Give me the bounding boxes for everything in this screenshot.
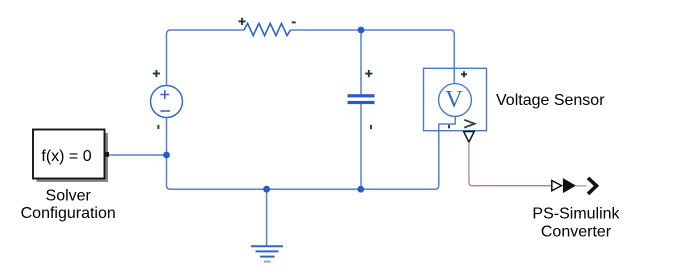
svg-text:PS-Simulink: PS-Simulink bbox=[532, 206, 620, 223]
svg-text:Solver: Solver bbox=[46, 188, 92, 205]
svg-text:Voltage Sensor: Voltage Sensor bbox=[496, 92, 605, 109]
svg-text:Configuration: Configuration bbox=[21, 205, 116, 222]
svg-text:V: V bbox=[445, 86, 463, 113]
svg-text:f(x) = 0: f(x) = 0 bbox=[41, 148, 91, 165]
svg-text:Converter: Converter bbox=[541, 224, 612, 241]
